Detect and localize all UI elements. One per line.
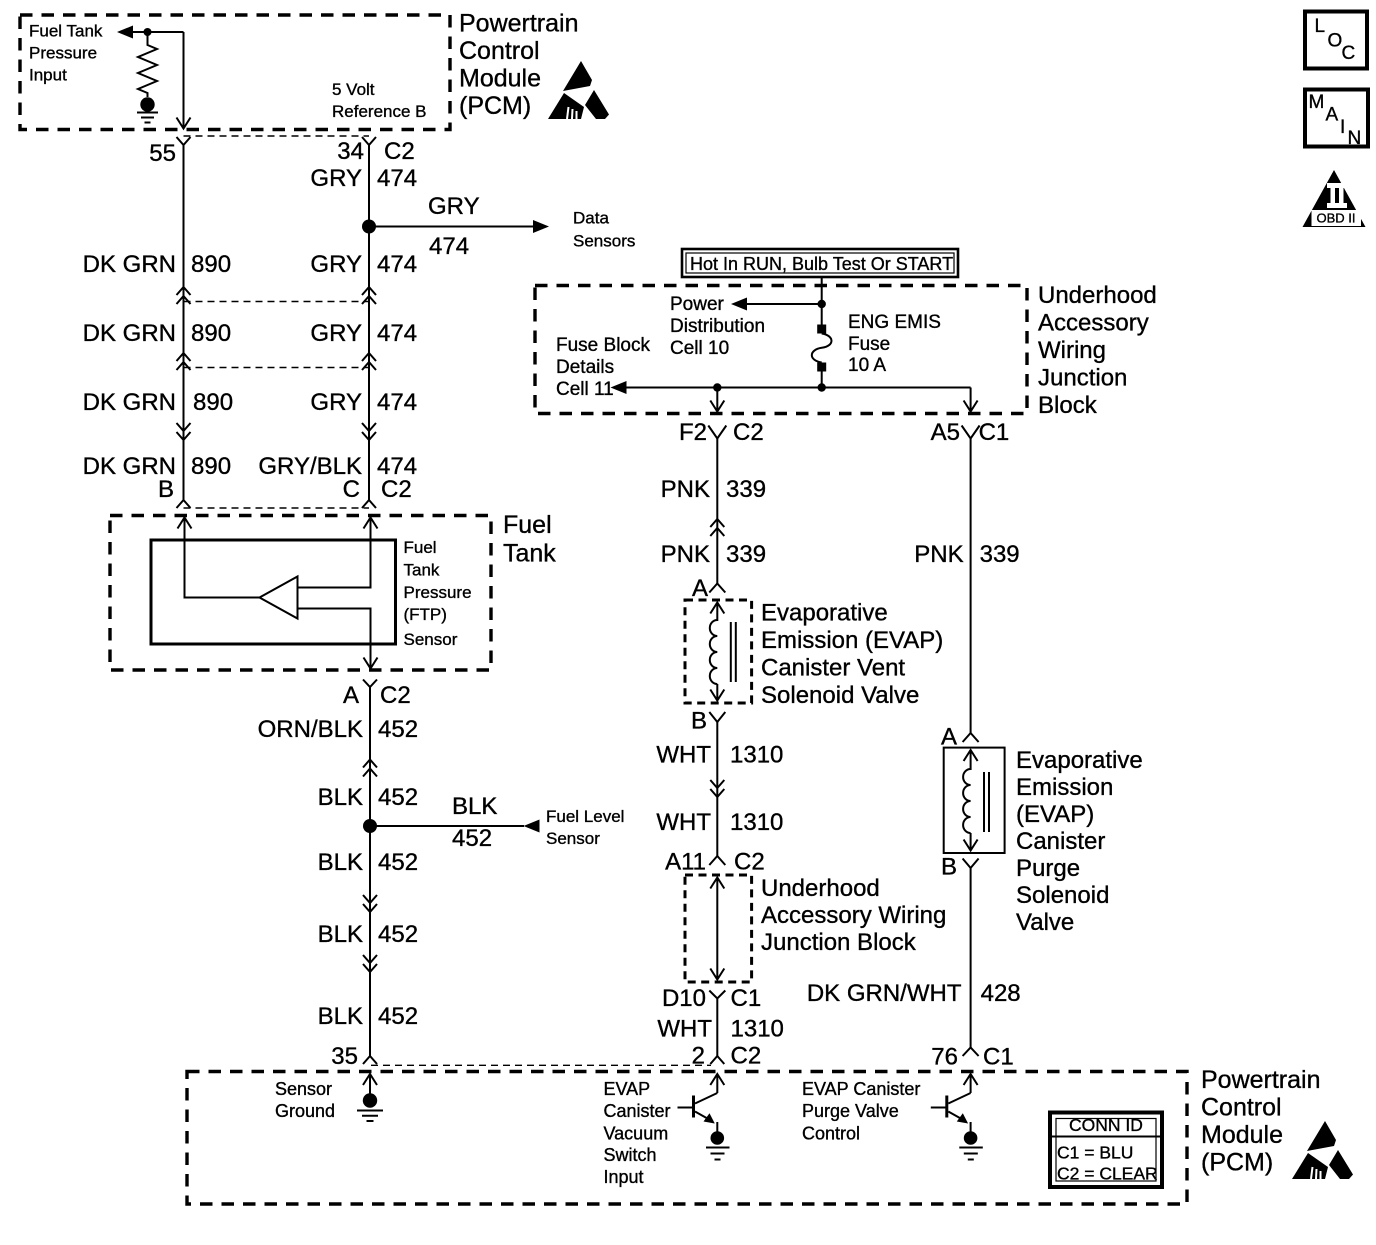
svg-text:890: 890 (193, 389, 233, 416)
svg-text:Control: Control (459, 37, 540, 65)
svg-text:Pressure: Pressure (29, 44, 97, 63)
wire: FTP sensor bottom tap to pin A (298, 609, 371, 669)
svg-text:EVAP Canister: EVAP Canister (802, 1079, 920, 1099)
svg-text:WHT: WHT (657, 1016, 712, 1043)
svg-text:GRY: GRY (310, 251, 362, 278)
svg-text:BLK: BLK (318, 849, 363, 876)
svg-text:Canister Vent: Canister Vent (761, 655, 905, 682)
pin 34 fork (362, 137, 376, 145)
purge solenoid core bars (984, 772, 989, 832)
svg-text:I: I (1340, 117, 1345, 138)
svg-text:A: A (941, 724, 957, 751)
vent solenoid pin B fork (709, 712, 725, 722)
svg-text:Tank: Tank (503, 540, 556, 568)
svg-text:Solenoid: Solenoid (1016, 882, 1109, 909)
svg-text:C2 = CLEAR: C2 = CLEAR (1057, 1164, 1158, 1184)
svg-text:C1: C1 (983, 1044, 1014, 1071)
svg-text:474: 474 (377, 320, 417, 347)
svg-text:C2: C2 (384, 138, 415, 165)
svg-text:452: 452 (378, 716, 418, 743)
svg-text:PNK: PNK (661, 476, 710, 503)
vent solenoid pin A chevron (709, 584, 725, 593)
Underhood junction block dashed box (lower) (685, 875, 752, 982)
svg-text:Evaporative: Evaporative (1016, 747, 1143, 774)
wire: 5V reference drop inside PCM (183, 32, 185, 117)
svg-text:BLK: BLK (452, 793, 497, 820)
svg-text:Junction Block: Junction Block (761, 929, 917, 956)
splice chevrons up on 452 wire (363, 760, 377, 777)
svg-text:C2: C2 (381, 476, 412, 503)
node: power distribution tap (818, 300, 826, 308)
fork at junction block pin A5 (962, 426, 980, 439)
svg-text:5 Volt: 5 Volt (332, 80, 375, 99)
svg-text:Purge Valve: Purge Valve (802, 1101, 899, 1121)
arrowhead from Fuel Level Sensor (524, 820, 540, 833)
transistor Q2 (EVAP canister purge valve control) (948, 1093, 970, 1104)
arrow down to A5 (964, 388, 978, 412)
LOC legend box (1305, 12, 1367, 69)
junction block pin A11 chevron (709, 856, 725, 865)
svg-text:(FTP): (FTP) (404, 605, 447, 624)
svg-text:Block: Block (1038, 392, 1098, 419)
ESD symbol (bottom PCM) (1292, 1121, 1353, 1179)
arrow up inside vent solenoid (710, 603, 724, 622)
svg-text:C: C (343, 476, 360, 503)
splice chevrons on PNK wire (710, 519, 724, 536)
svg-text:B: B (158, 476, 174, 503)
svg-text:452: 452 (452, 825, 492, 852)
svg-text:Sensor: Sensor (275, 1079, 332, 1099)
svg-text:(EVAP): (EVAP) (1016, 801, 1094, 828)
fuse ENG EMIS bottom terminal (817, 363, 826, 372)
svg-text:DK GRN: DK GRN (83, 320, 176, 347)
wire: ORN/BLK-BLK 452 (fuel tank A to PCM 35) (369, 687, 371, 1056)
splice chevrons on DK GRN wire (connector 2) (177, 353, 191, 370)
node: BLK splice to fuel level sensor (363, 819, 377, 833)
arrowhead into Fuel Tank Pressure Input (117, 26, 133, 39)
EVAP canister vent solenoid dashed box (685, 600, 752, 703)
Hot In RUN header box (682, 249, 958, 277)
node: bus junction at fuse (818, 383, 826, 391)
svg-text:C: C (1342, 43, 1356, 64)
ground (at Q2 emitter) (964, 1131, 978, 1145)
svg-text:Fuse: Fuse (848, 334, 890, 355)
arrowhead to Power Distribution (731, 298, 747, 311)
svg-text:Canister: Canister (1016, 828, 1105, 855)
svg-text:474: 474 (377, 251, 417, 278)
svg-text:B: B (691, 708, 707, 735)
svg-text:DK GRN: DK GRN (83, 251, 176, 278)
svg-text:Power: Power (670, 294, 725, 315)
svg-text:Wiring: Wiring (1038, 337, 1106, 364)
svg-text:Emission: Emission (1016, 774, 1113, 801)
svg-text:Accessory: Accessory (1038, 310, 1149, 337)
fork at fuel tank pin A (below box) (363, 680, 377, 688)
svg-text:Distribution: Distribution (670, 316, 765, 337)
svg-text:ORN/BLK: ORN/BLK (258, 716, 363, 743)
arrowhead to Data Sensors (533, 220, 549, 233)
svg-text:Powertrain: Powertrain (459, 10, 579, 38)
wire through junction block with arrows (710, 878, 724, 980)
svg-text:BLK: BLK (318, 921, 363, 948)
wire: feed from Hot In RUN into junction block (821, 277, 823, 325)
junction block pin D10 fork (709, 991, 725, 1057)
svg-text:Underhood: Underhood (1038, 282, 1157, 309)
svg-text:Sensors: Sensors (573, 232, 635, 251)
svg-text:GRY: GRY (428, 193, 480, 220)
resistor (FTP bias) (138, 32, 157, 97)
svg-text:474: 474 (429, 233, 469, 260)
in-line connector dashed line 2 (184, 367, 370, 369)
OBD II triangle symbol (1303, 170, 1366, 227)
svg-text:Purge: Purge (1016, 855, 1080, 882)
wire: FTP input horizontal (133, 31, 184, 33)
Underhood Accessory Wiring Junction Block dashed box (535, 286, 1027, 414)
wire: PNK 339 (A5 to purge solenoid A) (970, 439, 972, 734)
svg-text:Details: Details (556, 357, 614, 378)
fork at PCM pin 2 (710, 1056, 724, 1064)
svg-text:C2: C2 (734, 849, 765, 876)
arrow up at fuel tank pin B (inside) (178, 518, 192, 541)
svg-text:Junction: Junction (1038, 365, 1127, 392)
wire: FTP sensor output top tap (298, 518, 371, 588)
svg-text:C1: C1 (731, 985, 762, 1012)
bus wire to Fuse Block Details / F2 / A5 (626, 387, 971, 389)
svg-text:WHT: WHT (656, 742, 711, 769)
FTP sensor inner box (151, 540, 396, 644)
svg-text:Evaporative: Evaporative (761, 600, 888, 627)
svg-text:Switch: Switch (604, 1145, 657, 1165)
svg-text:(PCM): (PCM) (1201, 1149, 1273, 1177)
svg-text:DK GRN/WHT: DK GRN/WHT (807, 980, 962, 1007)
svg-text:D10: D10 (662, 985, 706, 1012)
purge solenoid pin B fork (963, 859, 979, 869)
PCM (top) module dashed box (20, 15, 450, 130)
svg-text:339: 339 (726, 541, 766, 568)
arrow down inside vent solenoid (710, 684, 724, 701)
arrow up at fuel tank pin C (inside) (364, 518, 378, 529)
svg-text:C2: C2 (380, 682, 411, 709)
ESD symbol (top PCM) (548, 61, 609, 119)
svg-text:PNK: PNK (914, 541, 963, 568)
Fuel Tank dashed box (110, 516, 491, 671)
svg-text:2: 2 (692, 1043, 705, 1070)
arrow up at PCM pin 76 (inside) (964, 1074, 978, 1093)
svg-text:F2: F2 (679, 419, 707, 446)
svg-text:Sensor: Sensor (404, 630, 458, 649)
arrow down inside purge solenoid (964, 833, 978, 851)
arrow down to F2 (710, 388, 724, 412)
svg-text:Pressure: Pressure (404, 583, 472, 602)
fork at PCM pin 76 (963, 1048, 979, 1057)
fuse ENG EMIS element (812, 334, 832, 363)
svg-text:GRY: GRY (310, 165, 362, 192)
arrow down at fuel tank pin A (inside) (364, 658, 378, 669)
svg-text:A: A (692, 575, 708, 602)
svg-text:Input: Input (604, 1167, 644, 1187)
svg-text:L: L (1315, 16, 1326, 37)
EVAP canister purge solenoid box (944, 748, 1005, 853)
svg-text:WHT: WHT (656, 809, 711, 836)
FTP sensor amplifier triangle (260, 577, 298, 619)
wire: WHT 1310 (vent solenoid B to junction block A11) (716, 722, 718, 856)
arrow up inside purge solenoid (964, 750, 978, 770)
svg-text:Cell 11: Cell 11 (556, 379, 614, 400)
svg-text:PNK: PNK (661, 541, 710, 568)
svg-text:Reference B: Reference B (332, 102, 427, 121)
svg-text:Fuse Block: Fuse Block (556, 335, 650, 356)
splice chevrons down on 452 wire (1) (363, 895, 377, 912)
svg-text:Vacuum: Vacuum (604, 1124, 669, 1144)
splice chevrons down on 452 wire (2) (363, 955, 377, 972)
svg-text:A11: A11 (665, 849, 706, 876)
wire: PNK 339 (F2 to vent solenoid A) (716, 439, 718, 584)
svg-text:DK GRN: DK GRN (83, 389, 176, 416)
svg-text:A5: A5 (931, 419, 960, 446)
MAIN legend box (1305, 90, 1368, 147)
svg-text:428: 428 (981, 980, 1021, 1007)
arrow up at PCM pin 35 (inside) (363, 1074, 377, 1094)
svg-text:N: N (1348, 128, 1362, 149)
fuel tank connector dashed line (B/C) (184, 507, 370, 509)
arrow (open) down to PCM pin 55 (177, 117, 191, 129)
connector C2 dashed line (pins 55/34) (184, 135, 370, 137)
wire: DK GRN/WHT 428 (purge solenoid B to PCM 76) (970, 868, 972, 1048)
svg-text:Control: Control (1201, 1094, 1282, 1122)
splice chevrons down on WHT wire (710, 780, 724, 797)
fork at fuel tank pin B (177, 500, 191, 508)
fuse ENG EMIS top terminal (817, 325, 826, 334)
ground (at Q1 emitter) (711, 1131, 725, 1145)
svg-text:M: M (1309, 92, 1325, 113)
svg-text:452: 452 (378, 1003, 418, 1030)
svg-text:Fuel: Fuel (503, 511, 552, 539)
svg-text:C2: C2 (733, 419, 764, 446)
svg-text:Data: Data (573, 209, 609, 228)
svg-text:452: 452 (378, 849, 418, 876)
svg-text:BLK: BLK (318, 784, 363, 811)
svg-text:1310: 1310 (730, 809, 783, 836)
svg-text:Hot In RUN, Bulb Test Or START: Hot In RUN, Bulb Test Or START (690, 254, 953, 274)
svg-text:76: 76 (931, 1044, 958, 1071)
svg-text:Sensor: Sensor (546, 829, 600, 848)
svg-text:EVAP: EVAP (604, 1079, 651, 1099)
svg-text:Canister: Canister (604, 1101, 671, 1121)
vent solenoid coil (710, 620, 717, 684)
svg-text:Module: Module (1201, 1121, 1283, 1149)
wire: to Power Distribution (746, 303, 822, 305)
purge solenoid coil (963, 769, 971, 833)
svg-text:ENG EMIS: ENG EMIS (848, 312, 941, 333)
svg-text:C1 = BLU: C1 = BLU (1057, 1143, 1133, 1163)
purge solenoid pin A chevron (963, 733, 979, 742)
node: bus junction at F2 drop (713, 383, 721, 391)
wire: GRY 474 to data sensors (369, 226, 534, 228)
wire: BLK 452 to fuel level sensor (370, 825, 524, 827)
svg-text:Valve: Valve (1016, 909, 1074, 936)
wire: fuse to bus (821, 372, 823, 388)
svg-text:Cell 10: Cell 10 (670, 338, 729, 359)
svg-text:1310: 1310 (730, 742, 783, 769)
svg-text:C2: C2 (731, 1043, 762, 1070)
splice chevrons on GRY wire (connector 2) (362, 353, 376, 370)
svg-text:Fuel Level: Fuel Level (546, 807, 624, 826)
svg-text:890: 890 (191, 453, 231, 480)
svg-text:Powertrain: Powertrain (1201, 1066, 1321, 1094)
svg-text:890: 890 (191, 251, 231, 278)
pin 55 fork (177, 137, 191, 145)
ground (resistor return) (140, 97, 154, 111)
svg-text:Tank: Tank (404, 561, 440, 580)
wire: GRY 474 (pin34 to fuel tank C) (368, 145, 370, 500)
svg-text:C1: C1 (979, 419, 1010, 446)
svg-text:452: 452 (378, 921, 418, 948)
svg-text:Control: Control (802, 1124, 860, 1144)
svg-text:(PCM): (PCM) (459, 92, 531, 120)
svg-text:474: 474 (377, 389, 417, 416)
svg-text:Solenoid Valve: Solenoid Valve (761, 682, 919, 709)
svg-text:GRY: GRY (310, 389, 362, 416)
svg-text:474: 474 (377, 165, 417, 192)
svg-text:B: B (941, 854, 957, 881)
svg-text:339: 339 (980, 541, 1020, 568)
svg-text:GRY: GRY (310, 320, 362, 347)
ground (sensor ground) node (363, 1093, 377, 1107)
arrow up at PCM pin 2 (inside) (710, 1074, 724, 1093)
svg-text:Accessory Wiring: Accessory Wiring (761, 902, 946, 929)
svg-text:Module: Module (459, 65, 541, 93)
fork at junction block pin F2 (708, 426, 726, 439)
svg-text:339: 339 (726, 476, 766, 503)
in-line connector dashed line 1 (184, 301, 370, 303)
svg-text:Fuel: Fuel (404, 538, 437, 557)
wire: B lead inside FTP sensor (185, 540, 261, 598)
PCM bottom connector dashed line (371, 1064, 711, 1066)
splice chevrons down on GRY wire (362, 423, 376, 440)
fork at fuel tank pin C (362, 500, 376, 508)
vent solenoid core bars (731, 622, 736, 682)
svg-text:Emission (EVAP): Emission (EVAP) (761, 627, 943, 654)
svg-text:Fuel Tank: Fuel Tank (29, 22, 103, 41)
splice chevrons on DK GRN wire (connector 1) (177, 287, 191, 304)
svg-text:Input: Input (29, 66, 67, 85)
svg-text:A: A (1326, 105, 1339, 126)
svg-text:O: O (1328, 31, 1343, 52)
svg-text:OBD II: OBD II (1316, 211, 1355, 226)
svg-text:BLK: BLK (318, 1003, 363, 1030)
wire: DK GRN 890 (pin55 to fuel tank B) (183, 145, 185, 500)
splice chevrons on GRY wire (connector 1) (362, 287, 376, 304)
transistor Q1 (EVAP canister vacuum switch input) (695, 1093, 717, 1104)
svg-text:35: 35 (331, 1043, 358, 1070)
arrowhead to Fuse Block Details Cell 11 (611, 381, 627, 394)
svg-text:34: 34 (337, 138, 364, 165)
node: GRY splice to data sensors (362, 220, 376, 234)
svg-text:890: 890 (191, 320, 231, 347)
node: FTP junction (144, 28, 152, 36)
svg-text:CONN ID: CONN ID (1069, 1115, 1143, 1135)
svg-text:Ground: Ground (275, 1101, 335, 1121)
PCM (bottom) module dashed box (187, 1072, 1187, 1205)
CONN ID table (1050, 1113, 1162, 1188)
svg-text:10 A: 10 A (848, 355, 886, 376)
svg-text:452: 452 (378, 784, 418, 811)
svg-text:Underhood: Underhood (761, 875, 880, 902)
svg-text:A: A (343, 682, 359, 709)
splice chevrons down on DK GRN wire (177, 423, 191, 440)
svg-text:55: 55 (149, 140, 176, 167)
svg-text:1310: 1310 (731, 1016, 784, 1043)
fork at PCM pin 35 (363, 1056, 377, 1064)
